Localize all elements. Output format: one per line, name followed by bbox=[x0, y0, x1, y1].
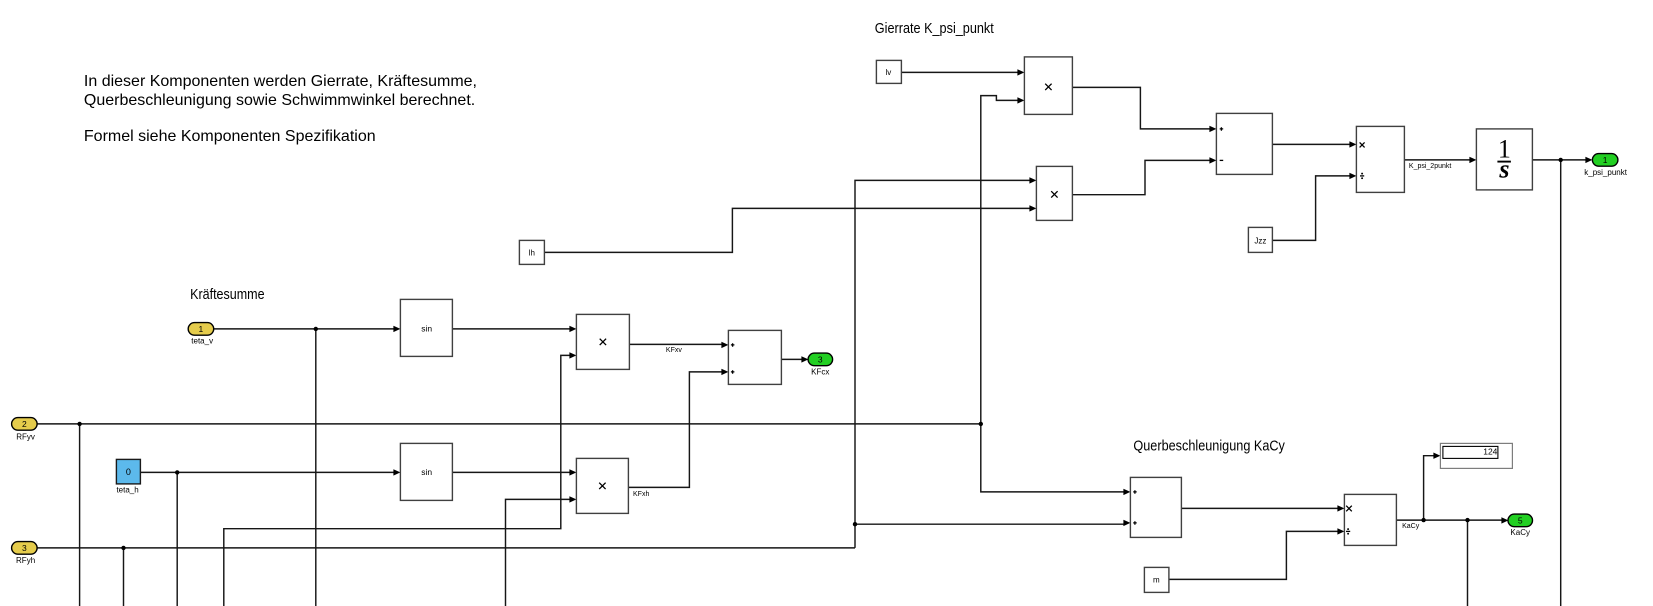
svg-text:3: 3 bbox=[22, 543, 27, 553]
svg-text:K_psi_2punkt: K_psi_2punkt bbox=[1409, 163, 1451, 170]
svg-text:m: m bbox=[1153, 575, 1160, 584]
svg-text:3: 3 bbox=[818, 354, 823, 364]
svg-text:lv: lv bbox=[886, 68, 892, 77]
svg-text:k_psi_punkt: k_psi_punkt bbox=[1584, 168, 1627, 177]
svg-text:teta_v: teta_v bbox=[191, 336, 213, 345]
svg-text:Formel siehe Komponenten Spezi: Formel siehe Komponenten Spezifikation bbox=[84, 128, 376, 145]
svg-text:Gierrate K_psi_punkt: Gierrate K_psi_punkt bbox=[875, 20, 995, 37]
svg-text:Kräftesumme: Kräftesumme bbox=[190, 286, 265, 303]
svg-text:KFxv: KFxv bbox=[666, 347, 682, 354]
svg-text:Jzz: Jzz bbox=[1254, 236, 1266, 245]
svg-text:sin: sin bbox=[421, 323, 432, 333]
svg-text:KFcx: KFcx bbox=[811, 367, 829, 376]
svg-text:lh: lh bbox=[529, 248, 535, 257]
svg-text:5: 5 bbox=[1518, 515, 1523, 525]
svg-text:1: 1 bbox=[1603, 155, 1608, 165]
svg-text:Querbeschleunigung sowie Schwi: Querbeschleunigung sowie Schwimmwinkel b… bbox=[84, 92, 475, 109]
svg-text:2: 2 bbox=[22, 419, 27, 429]
svg-text:1: 1 bbox=[199, 324, 204, 334]
svg-text:RFyv: RFyv bbox=[16, 432, 35, 441]
svg-text:Querbeschleunigung KaCy: Querbeschleunigung KaCy bbox=[1133, 438, 1285, 455]
svg-text:sin: sin bbox=[421, 467, 432, 477]
svg-text:RFyh: RFyh bbox=[16, 556, 35, 565]
svg-text:KFxh: KFxh bbox=[633, 491, 649, 498]
svg-text:124: 124 bbox=[1483, 447, 1497, 457]
svg-text:In dieser Komponenten werden G: In dieser Komponenten werden Gierrate, K… bbox=[84, 73, 477, 90]
svg-text:teta_h: teta_h bbox=[116, 485, 138, 494]
svg-text:KaCy: KaCy bbox=[1510, 528, 1530, 537]
svg-text:KaCy: KaCy bbox=[1402, 523, 1420, 530]
svg-text:0: 0 bbox=[126, 467, 131, 477]
svg-text:s: s bbox=[1498, 154, 1509, 183]
